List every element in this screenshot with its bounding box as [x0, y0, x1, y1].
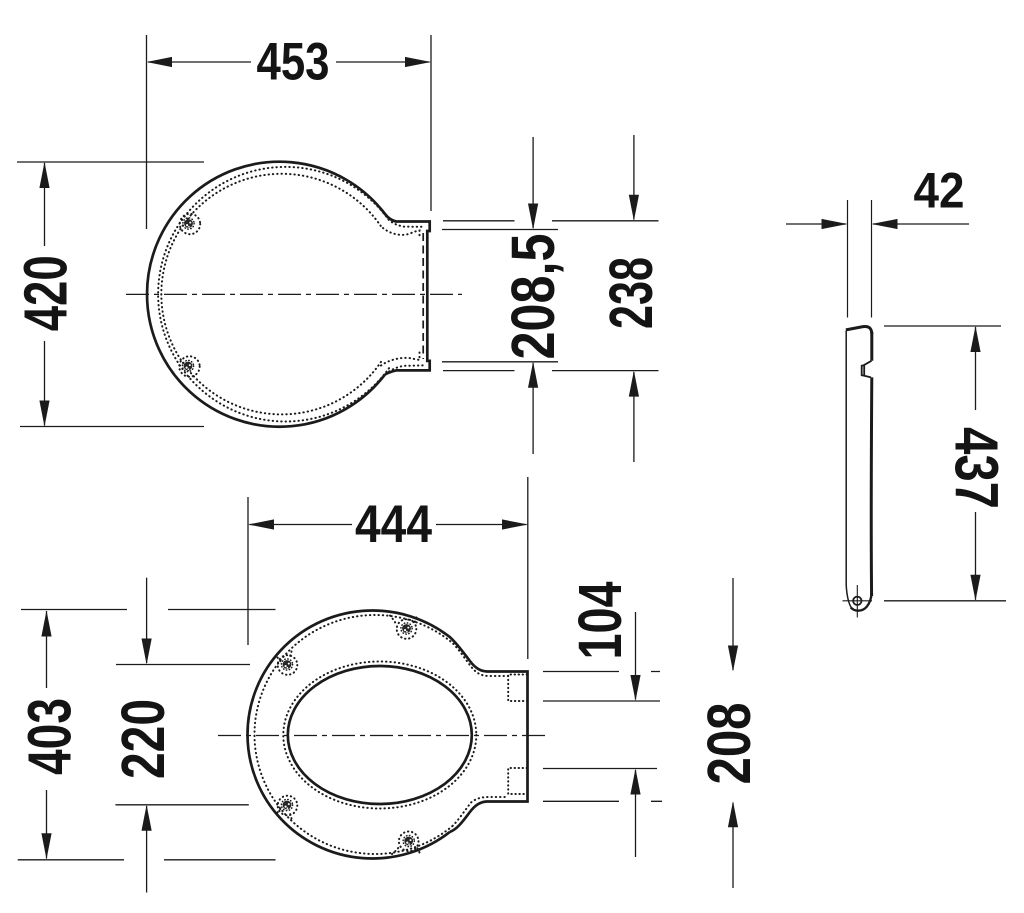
dim 238 dimension line bottom — [633, 372, 635, 462]
seat bumper bottom dotted circle — [399, 832, 419, 852]
svg-text:444: 444 — [355, 495, 432, 554]
seat bumper lower-left loop stems — [278, 808, 292, 819]
dim 42 dimension line left — [786, 223, 846, 225]
dim 104 extension line upper (shared ledge line) — [543, 671, 660, 673]
svg-text:437: 437 — [943, 427, 1011, 509]
dim 220 dimension line bottom — [146, 806, 148, 893]
dim 220 extension line top — [116, 664, 250, 666]
dim 437 extension line top — [884, 325, 1001, 327]
dim 208 arrow up — [728, 801, 738, 827]
seat bumper top loop stems — [390, 616, 417, 626]
dim 220 arrow up — [142, 805, 152, 831]
side profile pin hole — [853, 597, 861, 605]
dim 104 extension line B — [543, 700, 660, 702]
dim 104 arrow up — [630, 769, 640, 795]
dim 104 arrow down — [630, 675, 640, 701]
lid dotted ledge detail bottom — [389, 365, 423, 371]
lid bumper bottom core — [184, 362, 193, 371]
dim 437 extension line bottom — [884, 600, 1006, 602]
dim 403 dimension line — [46, 611, 48, 859]
dim 208 arrow down — [728, 646, 738, 672]
seat centerline dash-dot — [218, 735, 549, 737]
lid dotted ledge detail top — [383, 228, 420, 239]
dim 238 arrow up — [629, 371, 639, 397]
seat bumper lower-left dotted circle — [278, 796, 298, 816]
lid bumper top core — [184, 219, 193, 228]
side profile left edge — [846, 331, 852, 609]
dim 238 extension line bottom — [443, 370, 659, 372]
side profile bottom cap — [851, 593, 872, 611]
dim 208,5 extension line top — [442, 229, 558, 231]
dim 403 extension line top — [21, 609, 276, 611]
seat hinge hole upper dotted rectangle — [508, 675, 527, 702]
lid hidden contour dotted inner arc 1 — [158, 167, 423, 422]
dim 42 arrow left-pointing — [872, 219, 898, 229]
dim 437 dimension line top — [975, 327, 977, 410]
dim 437 arrow down — [970, 575, 980, 601]
seat bumper upper-left loop stems — [278, 652, 292, 663]
svg-text:453: 453 — [257, 33, 330, 92]
dim 453 dimension line — [148, 61, 430, 63]
seat outer contour — [248, 611, 528, 859]
lid bumper bottom dotted circle — [179, 356, 199, 376]
dim 453 arrow right — [405, 57, 431, 67]
dim 104 dimension line top — [635, 612, 637, 700]
side profile right edge thick — [870, 332, 874, 596]
seat bumper top dotted circle — [397, 619, 417, 639]
lid hidden contour dotted inner arc 2 — [161, 174, 381, 415]
dim 420 dimension line — [44, 163, 46, 426]
lid hidden hinge edge dashed — [422, 233, 424, 359]
seat bumper upper-left core — [283, 660, 292, 669]
dim 403 arrow down — [41, 833, 51, 859]
dim 453 extension line left — [146, 35, 148, 229]
svg-text:220: 220 — [109, 699, 177, 779]
dim 437 arrow up — [970, 326, 980, 352]
dim 453 arrow left — [147, 57, 173, 67]
seat bumper bottom core — [404, 837, 413, 846]
dim 444 extension line right — [527, 477, 529, 659]
dim 444 arrow left — [248, 519, 274, 529]
dim 420 extension line bottom — [20, 426, 204, 428]
dim 403 extension line bottom — [18, 859, 276, 861]
dim 444 arrow right — [502, 519, 528, 529]
svg-text:403: 403 — [16, 698, 84, 775]
dim 42 dimension line right — [873, 223, 969, 225]
lid centerline dash-dot — [126, 293, 462, 295]
dim 42 arrow right-pointing — [822, 219, 848, 229]
dim 437 dimension line bottom — [975, 512, 977, 600]
dim 42 extension line left — [847, 200, 849, 318]
seat inner oval dotted offset — [283, 662, 476, 809]
seat inner oval solid — [288, 666, 472, 804]
dim 208,5 dimension line bottom — [532, 363, 534, 454]
dim 220 dimension line top — [146, 578, 148, 663]
dim 420 extension line top — [17, 161, 204, 163]
svg-text:420: 420 — [12, 255, 80, 331]
dim 238 extension line top — [443, 220, 659, 222]
dim 208,5 dimension line top — [532, 137, 534, 228]
dim 403 arrow up — [41, 611, 51, 637]
svg-text:208,5: 208,5 — [499, 234, 567, 360]
dim 220 arrow down — [142, 639, 152, 665]
dim 42 extension line right — [871, 200, 873, 318]
side profile hole center marks — [843, 585, 873, 618]
seat hinge hole lower dotted rectangle — [508, 768, 527, 794]
dim 420 arrow down — [39, 401, 49, 427]
lid bumper top dotted circle — [180, 214, 200, 234]
svg-text:104: 104 — [566, 581, 634, 659]
dim 444 dimension line — [250, 524, 527, 526]
svg-text:238: 238 — [597, 257, 665, 329]
dim 208,5 arrow up — [528, 362, 538, 388]
side profile hinge boss — [862, 361, 872, 378]
side profile top edge — [846, 326, 872, 334]
dim 238 dimension line top — [633, 135, 635, 220]
svg-text:42: 42 — [914, 163, 965, 219]
dim 104 dimension line bottom — [635, 770, 637, 857]
dim 220 extension line bottom — [115, 804, 248, 806]
dim 238 arrow down — [629, 195, 639, 221]
seat inner dotted contour — [254, 615, 508, 854]
dim 104 extension line D (shared ledge line) — [543, 800, 662, 802]
lid dotted ledge wave bottom — [381, 352, 420, 366]
dim 208 dimension line top — [732, 578, 734, 670]
lid outer contour — [147, 162, 430, 427]
seat bumper lower-left core — [283, 801, 292, 810]
dim 208,5 extension line bottom — [442, 361, 558, 363]
svg-text:208: 208 — [695, 703, 763, 785]
seat bumper top core — [402, 624, 411, 633]
dim 420 arrow up — [39, 162, 49, 188]
dim 208 dimension line bottom — [732, 803, 734, 888]
seat bumper upper-left dotted circle — [278, 655, 298, 675]
dim 444 extension line left — [247, 497, 249, 645]
seat bumper bottom loop stems — [392, 847, 420, 855]
dim 208,5 arrow down — [528, 204, 538, 230]
dim 453 extension line right — [430, 35, 432, 211]
dim 104 extension line C — [543, 768, 657, 770]
